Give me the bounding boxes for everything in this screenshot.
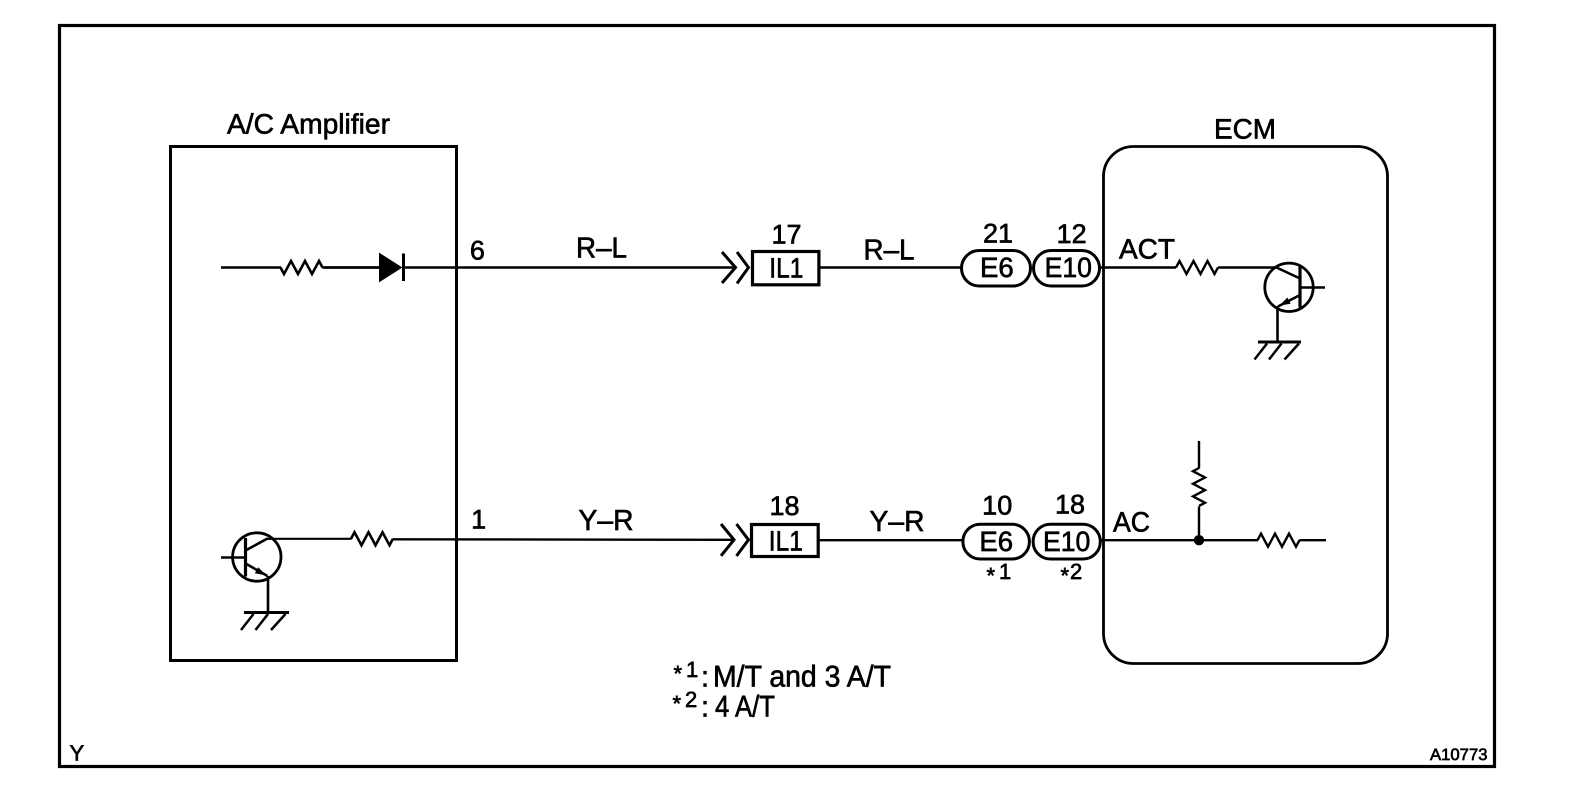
wire (E10 through node to resistor, bottom row) xyxy=(1100,539,1258,541)
ground (ECM, Q2) hatch 3 xyxy=(1285,344,1300,360)
transistor Q1 emitter diagonal xyxy=(246,564,268,577)
transistor Q2 base lead xyxy=(1300,286,1325,288)
svg-text:12: 12 xyxy=(1057,219,1087,249)
transistor Q1 collector diagonal xyxy=(246,539,268,551)
wire (IL1 to E6, bottom row) xyxy=(818,539,963,541)
diode D1 (anode triangle) xyxy=(380,254,402,282)
transistor Q2 emitter arrow xyxy=(1280,298,1291,306)
svg-text:2: 2 xyxy=(685,687,697,712)
connector E10 oval (top row) xyxy=(1034,251,1100,287)
transistor Q2 circle (ECM) xyxy=(1265,263,1313,311)
svg-text:E6: E6 xyxy=(979,526,1013,557)
pull-up lead (vertical, top) xyxy=(1198,441,1200,469)
svg-text:10: 10 xyxy=(982,491,1012,521)
connector chevron 2 (bottom row) xyxy=(737,524,749,556)
svg-text:18: 18 xyxy=(769,491,799,521)
node junction dot xyxy=(1194,535,1204,545)
wire (diode through pin 6 to connector) xyxy=(404,266,736,268)
wire (A/C amp internal, left of resistor) xyxy=(221,266,281,268)
wire (IL1 to E6, top row) xyxy=(819,266,961,268)
transistor Q1 base lead xyxy=(221,556,246,558)
connector E6 oval (top row) xyxy=(962,251,1031,287)
svg-text:R–L: R–L xyxy=(864,235,915,267)
wire (resistor to transistor Q2) xyxy=(1218,266,1277,268)
ground (ECM, Q2) hatch 1 xyxy=(1255,344,1268,360)
svg-text:E10: E10 xyxy=(1043,526,1090,557)
connector E10 oval (bottom row) xyxy=(1033,524,1100,559)
svg-text::: : xyxy=(701,692,709,724)
wire (E10 to ACT resistor) xyxy=(1100,266,1177,268)
connector E6 oval (bottom row) xyxy=(963,524,1030,559)
svg-text:*: * xyxy=(987,563,996,588)
svg-text:1: 1 xyxy=(686,657,698,682)
resistor (vertical pull-up, ECM) xyxy=(1193,468,1205,506)
ground (ECM, Q2) bar xyxy=(1258,341,1301,344)
svg-text:1: 1 xyxy=(999,559,1011,584)
transistor Q2 collector diagonal xyxy=(1277,268,1301,279)
connector chevron 1 (top row) xyxy=(722,252,736,283)
svg-text:A10773: A10773 xyxy=(1430,746,1488,764)
svg-text:M/T and 3 A/T: M/T and 3 A/T xyxy=(713,661,891,694)
ground (A/C amp, Q1) hatch 2 xyxy=(256,614,269,630)
transistor Q1 base bar xyxy=(244,538,247,577)
ground (A/C amp, Q1) hatch 1 xyxy=(241,614,254,630)
connector chevron 2 (top row) xyxy=(737,252,749,284)
svg-text:2: 2 xyxy=(1070,559,1082,584)
svg-text:R–L: R–L xyxy=(576,233,627,265)
ground (ECM, Q2) hatch 2 xyxy=(1269,344,1282,360)
ground (A/C amp, Q1) hatch 3 xyxy=(271,614,286,630)
svg-text:Y–R: Y–R xyxy=(870,506,925,538)
svg-text:1: 1 xyxy=(471,505,486,535)
svg-text:Y: Y xyxy=(70,741,85,766)
pull-up lead (vertical, bottom to node) xyxy=(1198,507,1200,541)
wire (resistor through pin 1 to connector) xyxy=(393,538,734,541)
svg-text:4 A/T: 4 A/T xyxy=(715,691,775,724)
transistor Q2 emitter diagonal xyxy=(1278,295,1300,307)
junction connector IL1 box (top row) xyxy=(753,252,819,285)
svg-text:*: * xyxy=(674,661,683,686)
transistor Q1 emitter lead xyxy=(267,576,270,613)
wire (resistor to end) xyxy=(1300,539,1327,541)
svg-text:IL1: IL1 xyxy=(769,253,803,284)
wire (resistor to diode) xyxy=(323,266,381,269)
svg-text:*: * xyxy=(673,691,682,716)
connector chevron 1 (bottom row) xyxy=(721,524,734,556)
svg-text:Y–R: Y–R xyxy=(579,505,634,537)
svg-text:6: 6 xyxy=(470,236,485,266)
svg-text:E10: E10 xyxy=(1045,252,1092,283)
svg-text:ECM: ECM xyxy=(1214,114,1276,145)
svg-text:18: 18 xyxy=(1055,490,1085,520)
ECM box xyxy=(1104,147,1388,664)
transistor Q2 base bar xyxy=(1298,266,1301,308)
junction connector IL1 box (bottom row) xyxy=(752,525,819,557)
resistor (A/C amp internal, top row) xyxy=(281,261,323,274)
svg-text::: : xyxy=(701,662,709,694)
wire (Q1 collector to resistor) xyxy=(267,538,352,540)
resistor (ACT, in ECM) xyxy=(1176,261,1218,274)
svg-text:A/C Amplifier: A/C Amplifier xyxy=(227,109,390,140)
resistor (bottom right, ECM) xyxy=(1258,534,1300,547)
A/C Amplifier box xyxy=(171,147,457,661)
svg-text:*: * xyxy=(1061,563,1070,588)
svg-text:ACT: ACT xyxy=(1119,234,1175,265)
svg-text:AC: AC xyxy=(1113,507,1150,538)
ground (A/C amp, Q1) bar xyxy=(244,611,289,614)
resistor (A/C amp internal, bottom row) xyxy=(351,532,393,545)
svg-text:17: 17 xyxy=(771,220,801,250)
transistor Q1 emitter arrow xyxy=(255,567,267,575)
transistor Q1 circle (A/C amp) xyxy=(233,533,281,581)
transistor Q2 emitter lead xyxy=(1276,306,1279,342)
svg-text:21: 21 xyxy=(983,219,1013,249)
svg-text:E6: E6 xyxy=(980,252,1014,283)
diode D1 cathode bar xyxy=(402,254,405,282)
svg-text:IL1: IL1 xyxy=(769,526,803,557)
